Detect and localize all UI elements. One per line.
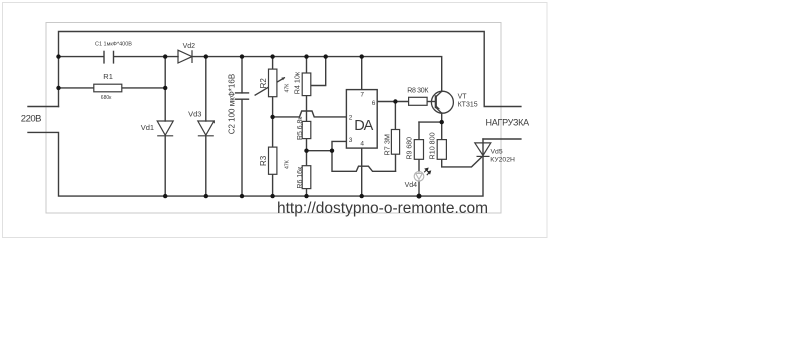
svg-text:47К: 47К <box>285 84 291 93</box>
svg-text:R5 6,8к: R5 6,8к <box>297 116 304 140</box>
svg-text:7: 7 <box>360 91 364 98</box>
svg-text:С2 100 мкФ*16В: С2 100 мкФ*16В <box>227 74 236 134</box>
svg-text:Vd2: Vd2 <box>183 43 196 50</box>
svg-text:R9 680: R9 680 <box>407 137 414 160</box>
svg-text:R10 800: R10 800 <box>428 132 437 159</box>
svg-text:КУ202Н: КУ202Н <box>490 156 515 163</box>
svg-text:КТ315: КТ315 <box>458 101 478 108</box>
svg-text:НАГРУЗКА: НАГРУЗКА <box>486 117 530 127</box>
svg-text:R2: R2 <box>259 78 268 89</box>
svg-text:Vd4: Vd4 <box>405 182 418 189</box>
svg-text:220В: 220В <box>21 113 41 124</box>
svg-text:Vd1: Vd1 <box>141 123 154 132</box>
svg-text:2: 2 <box>349 114 353 121</box>
svg-text:R7 3М: R7 3М <box>382 134 391 156</box>
svg-text:R4 10к: R4 10к <box>292 71 301 94</box>
svg-text:R6 16к: R6 16к <box>297 166 304 189</box>
svg-text:47К: 47К <box>285 160 291 169</box>
svg-text:R1: R1 <box>103 72 113 81</box>
svg-text:R3: R3 <box>259 155 268 166</box>
svg-text:R8 30К: R8 30К <box>407 87 429 94</box>
svg-text:С1 1мкФ*400В: С1 1мкФ*400В <box>95 41 132 47</box>
svg-text:6: 6 <box>372 100 376 107</box>
svg-text:Vd3: Vd3 <box>188 110 201 119</box>
svg-text:4: 4 <box>360 141 364 148</box>
svg-text:680к: 680к <box>101 95 112 101</box>
svg-text:Vd5: Vd5 <box>491 149 503 156</box>
svg-text:VT: VT <box>458 93 468 100</box>
svg-text:DA: DA <box>354 118 373 134</box>
svg-text:3: 3 <box>349 137 353 144</box>
svg-text:http://dostypno-o-remonte.com: http://dostypno-o-remonte.com <box>277 200 488 217</box>
